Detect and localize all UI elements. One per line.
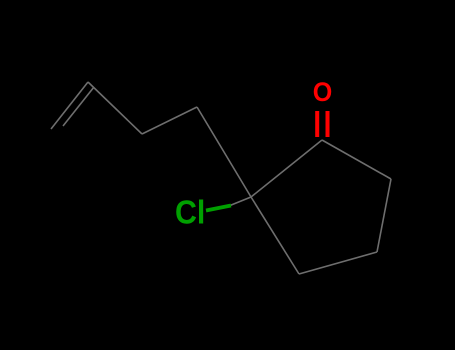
svg-text:O: O (313, 76, 333, 107)
bond CH2-CH2 (chain) (142, 107, 197, 134)
double bond C1=O line 1 (red) (315, 111, 319, 137)
bond C4-C3 (ring) (299, 252, 377, 274)
bond C1-C5 (ring) (322, 140, 391, 179)
bond C3-C2 (ring) (251, 197, 299, 274)
double bond CH=CH2 line 1 (51, 82, 88, 129)
bond C2-C1 (ring) (251, 140, 322, 197)
bond C2-Cl gray half (230, 197, 251, 206)
bond C5-C4 (ring) (377, 179, 391, 252)
double bond CH=CH2 line 2 (63, 87, 94, 126)
bond CH2-CH= (chain) (88, 82, 142, 134)
bond C2-Cl green half (206, 206, 231, 211)
double bond C1=O line 2 (red) (326, 111, 330, 137)
bond C2-CH2 (chain) (197, 107, 251, 197)
svg-text:Cl: Cl (175, 193, 205, 230)
